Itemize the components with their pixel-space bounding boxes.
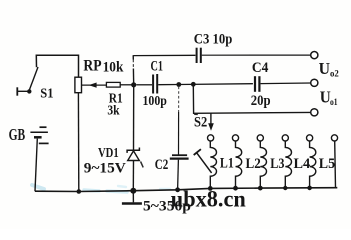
S1 lever blade	[29, 67, 38, 92]
wire: C2 bottom to rail	[177, 160, 180, 190]
wire: node A down to VD1 cathode	[133, 85, 135, 151]
node: L4 / rail junction	[283, 186, 287, 190]
node B junction dot (C1 / C2 branch)	[176, 82, 181, 87]
inductor L1 (adjustable)	[210, 141, 216, 188]
svg-text:C3 10p: C3 10p	[194, 31, 233, 47]
ground stub terminal under rail	[132, 191, 134, 203]
node: L1 / rail junction	[208, 186, 213, 191]
wire: node A to C1	[136, 84, 152, 86]
wire: corner nub artifact	[194, 113, 198, 115]
variable capacitor C2	[172, 154, 187, 156]
stray scan mark	[141, 162, 144, 168]
L1 adjustable-core slider stroke	[196, 152, 211, 173]
svg-text:L4: L4	[294, 156, 311, 172]
node: VD1 / rail junction	[130, 188, 136, 194]
wire: C1 to node B	[158, 84, 179, 86]
wire: node A riser to C3	[133, 54, 195, 56]
wire: node C down and right to common terminal	[193, 84, 310, 113]
node: RP / rail junction	[77, 189, 82, 194]
wire: VD1 anode down to rail	[132, 161, 134, 191]
wire: node A riser up to C3 rail	[132, 55, 134, 59]
wire: RP bottom leg down to rail	[77, 93, 79, 192]
svg-text:RP: RP	[83, 57, 102, 74]
svg-text:3k: 3k	[107, 103, 119, 118]
node: L3 / rail junction	[258, 186, 263, 191]
node: L2 / rail junction	[233, 186, 238, 191]
S1 contact dot	[27, 89, 31, 93]
battery GB	[30, 127, 48, 191]
resistor R1	[106, 82, 120, 87]
inductor L5	[310, 141, 316, 188]
node A junction dot (R1 / C1 / VD1 / C3 riser)	[131, 82, 136, 87]
S2 contact circle position 2	[232, 135, 238, 141]
scan smudge marks (cyan) along bottom rail	[32, 185, 170, 192]
svg-text:20p: 20p	[251, 93, 271, 109]
terminal common	[311, 109, 318, 116]
zener diode VD1	[127, 148, 139, 161]
S2 contact circle position 4	[282, 135, 288, 141]
svg-text:S2: S2	[194, 115, 207, 131]
inductor L2	[236, 141, 242, 188]
S2 contact circle position 1	[208, 135, 214, 141]
switch S1	[17, 67, 38, 96]
S1 left terminal tick	[16, 87, 18, 95]
terminal Uo1	[311, 79, 318, 86]
svg-text:U: U	[319, 59, 330, 78]
wire: C3 to terminal Uo2	[202, 54, 311, 56]
node C junction dot (S2 branch)	[191, 82, 196, 87]
wire: node B to C4	[179, 83, 253, 86]
GB cell plate (long)	[39, 142, 49, 144]
svg-text:ubx8.cn: ubx8.cn	[171, 186, 246, 211]
svg-text:L1: L1	[220, 155, 234, 171]
S2 contact circle position 6	[331, 135, 337, 141]
wire: S1 top terminal up, across, and down to RP top	[36, 55, 78, 77]
svg-text:L3: L3	[270, 156, 284, 172]
svg-text:9~15V: 9~15V	[84, 160, 127, 176]
node: L5 / rail junction	[307, 186, 312, 191]
svg-text:L5: L5	[319, 156, 335, 172]
GB cell plate (short thick)	[34, 136, 42, 139]
svg-text:L2: L2	[246, 156, 261, 172]
svg-text:C4: C4	[252, 60, 269, 76]
S1 fixed contact lead	[18, 90, 28, 92]
GB cell plate (long)	[30, 131, 48, 133]
capacitor C4	[254, 76, 256, 92]
svg-text:10k: 10k	[103, 60, 124, 76]
inductor L4	[285, 141, 291, 188]
svg-text:o1: o1	[330, 98, 338, 108]
capacitor C1	[152, 75, 154, 94]
RP wiper arrow to R1	[82, 84, 107, 86]
inductor L3	[260, 141, 266, 188]
wire: S2 position 6 straight down to rail	[334, 141, 337, 188]
svg-text:GB: GB	[9, 125, 26, 144]
svg-text:VD1: VD1	[98, 146, 119, 161]
svg-text:o2: o2	[330, 69, 339, 79]
potentiometer RP body	[75, 77, 82, 93]
svg-text:S1: S1	[40, 87, 53, 102]
svg-text:100p: 100p	[143, 94, 168, 109]
capacitor C3	[196, 48, 198, 63]
S2 contact circle position 5	[307, 135, 313, 141]
S2 contact circle position 3	[257, 135, 263, 141]
wire: GB negative lead down to rail	[35, 139, 37, 192]
wire: bottom common rail	[35, 188, 337, 192]
node: C2 / rail junction	[175, 187, 180, 192]
wire: R1 to node A	[120, 84, 134, 86]
wire: node B down to C2 (faded upper part)	[178, 87, 180, 113]
switch S2 wiper arrow	[210, 113, 212, 124]
svg-text:C1: C1	[151, 58, 164, 74]
terminal Uo2	[311, 52, 318, 59]
wire: C4 to terminal Uo1	[261, 82, 311, 85]
svg-text:C2: C2	[155, 157, 169, 173]
GB cell plate (short)	[40, 126, 47, 128]
